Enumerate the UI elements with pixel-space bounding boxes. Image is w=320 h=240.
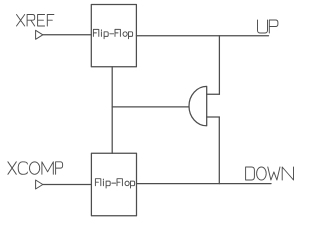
and-gate U3 (mirrored, inputs right / output left) <box>189 86 207 125</box>
input port XCOMP (triangle) <box>36 180 43 189</box>
wire reset line U1 to U2 <box>111 67 113 154</box>
wire XCOMP to U2 <box>43 184 92 186</box>
flip-flop U1 (top) <box>91 5 136 67</box>
wire gate top input stub <box>207 93 220 95</box>
wire U2 output to DOWN <box>137 183 272 185</box>
label DOWN <box>246 167 294 180</box>
wire U1 output to UP <box>136 35 268 37</box>
wire UP branch down to gate input <box>218 36 220 95</box>
label XCOMP <box>8 162 63 175</box>
flip-flop U2 (bottom) <box>91 153 136 215</box>
wire XREF to U1 <box>43 34 92 36</box>
label Flip-Flop U1 <box>93 29 132 38</box>
wire gate output to reset node <box>112 106 189 108</box>
label UP <box>258 20 278 33</box>
label Flip-Flop U2 <box>95 179 134 188</box>
wire DOWN branch up to gate input <box>218 117 220 184</box>
wire gate bottom input stub <box>207 116 220 118</box>
input port XREF (triangle) <box>36 30 43 39</box>
label XREF <box>17 15 54 27</box>
